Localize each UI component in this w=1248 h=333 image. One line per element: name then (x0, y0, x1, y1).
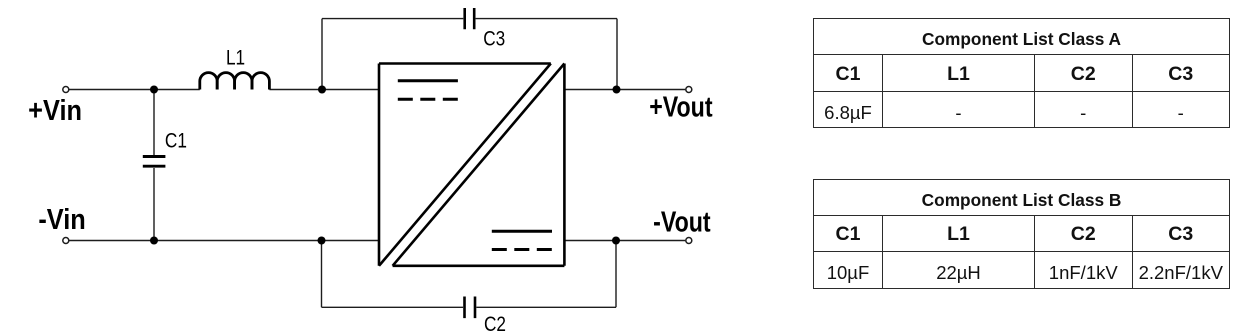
svg-text:C1: C1 (165, 130, 187, 153)
svg-text:-Vout: -Vout (653, 205, 711, 238)
svg-text:C3: C3 (483, 28, 505, 51)
svg-text:-Vin: -Vin (38, 203, 85, 236)
svg-text:L1: L1 (226, 47, 245, 70)
svg-text:+Vout: +Vout (649, 90, 713, 123)
svg-text:+Vin: +Vin (28, 94, 82, 127)
svg-text:C2: C2 (484, 314, 506, 333)
